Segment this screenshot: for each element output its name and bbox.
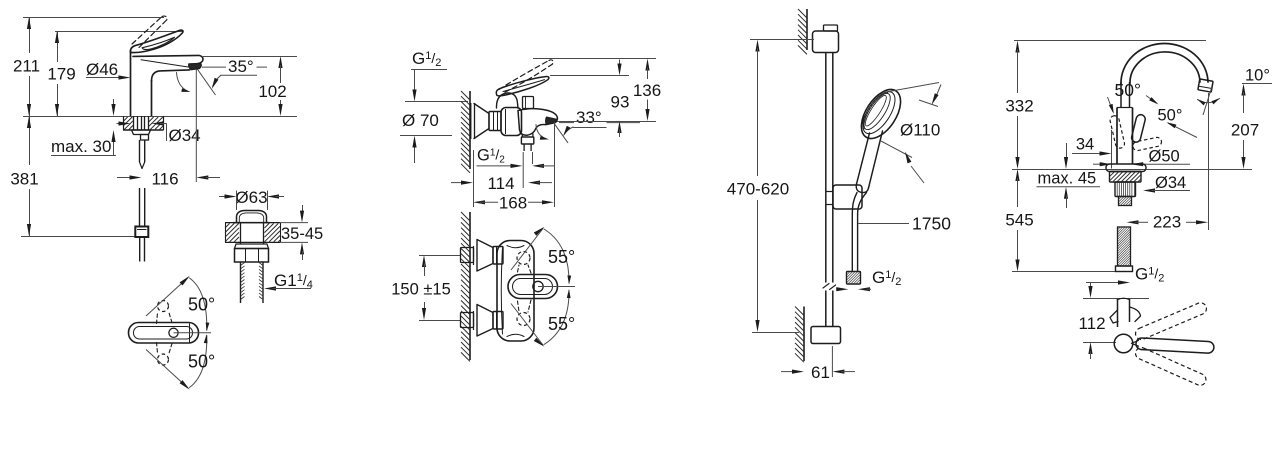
dimension 61 (781, 371, 795, 373)
dashed lever position down (circle) (158, 354, 169, 365)
svg-text:223: 223 (1153, 213, 1181, 232)
svg-text:150 ±15: 150 ±15 (391, 281, 451, 299)
dimension 545 (1015, 169, 1019, 181)
dimension 93 (619, 60, 621, 68)
extension lines 35-45 (280, 222, 308, 224)
spout aerator (dark) (189, 63, 202, 70)
svg-text:114: 114 (487, 174, 514, 193)
10 degree arc arrows (1198, 99, 1220, 103)
shower head clip detail (863, 116, 865, 127)
svg-text:Ø46: Ø46 (86, 60, 118, 79)
svg-text:61: 61 (811, 363, 830, 382)
label G1/2 hose thread (1086, 282, 1122, 284)
shower rail upper section (825, 53, 827, 283)
deck line (1012, 169, 1252, 171)
mixer body front view (497, 241, 534, 342)
35 deg arc arrow left (177, 73, 189, 92)
union nut side view (489, 112, 501, 131)
diverter knob (523, 97, 534, 109)
mounting flange hatched (1110, 172, 1142, 183)
extension line rail edge for 61 (831, 346, 833, 377)
svg-text:168: 168 (499, 194, 527, 213)
extension line top of lever (179 ref) (55, 31, 183, 33)
dashed lever edges down (157, 343, 158, 355)
extension lines for Ø63 (236, 191, 238, 211)
waste locknut (235, 249, 269, 263)
max 45 arrows (1066, 143, 1068, 160)
33 deg angle diagonal (554, 124, 568, 143)
handle butt end (856, 184, 868, 193)
dimension 136 (645, 59, 649, 71)
hand shower head (853, 83, 908, 145)
wall line top with hatching (806, 9, 808, 50)
extension line lever top (93 ref) (550, 75, 629, 77)
high arc spout outer curve (1121, 43, 1208, 84)
55 deg arc upper (544, 229, 569, 283)
spout inner contour (141, 60, 188, 67)
50 deg leader line lower (146, 350, 188, 389)
50 deg leader line upper (146, 278, 188, 317)
faucet top view body (swing view) (1117, 299, 1119, 327)
dimension 114 (451, 182, 464, 184)
dimension Ø50 arrows (1093, 163, 1103, 165)
svg-text:50°: 50° (1115, 80, 1141, 100)
svg-text:34: 34 (1076, 136, 1094, 154)
svg-text:Ø 70: Ø 70 (402, 111, 439, 130)
faucet body column (130, 50, 132, 116)
lever top view inner contour (134, 327, 193, 340)
hose connector stub (141, 135, 149, 141)
mixer body side view (501, 108, 522, 136)
extension line bottom of supply hose (381 ref) (21, 236, 146, 238)
svg-text:Ø63: Ø63 (235, 188, 267, 207)
35 deg arc arrow from underline (213, 75, 221, 86)
escutcheon cone side view (470, 103, 472, 139)
lever dashed forward position (1132, 137, 1162, 152)
label Ø34 shank (1143, 188, 1155, 192)
hose conical nut G1/2 (847, 272, 861, 285)
dashed lever edges up (157, 312, 158, 324)
55 deg leader upper (511, 229, 543, 271)
extension line top of raised lever (211 ref) (23, 17, 164, 19)
33 deg arc arrow left (536, 125, 546, 139)
svg-text:112: 112 (1078, 314, 1105, 333)
deck / counter line (23, 116, 297, 118)
spout underside with fillet to column (152, 70, 190, 81)
pivot horizontal reference line (174, 332, 212, 334)
svg-text:93: 93 (611, 93, 630, 112)
svg-text:211: 211 (13, 57, 40, 76)
flexible supply hose lower segment (139, 188, 141, 226)
lever end cap line (189, 324, 191, 343)
waste body through deck (240, 223, 242, 244)
dimension 211 vertical line (29, 17, 31, 53)
pivot circle swing view (1114, 334, 1133, 353)
spout outlet (1198, 79, 1213, 92)
shower hose (852, 193, 857, 215)
55 deg leader lower (511, 304, 543, 346)
dimension 168 (473, 200, 485, 204)
dimension 150 +-15 (419, 255, 461, 257)
wall line side view with hatching (469, 91, 471, 169)
svg-text:55°: 55° (548, 314, 575, 334)
svg-text:50°: 50° (1158, 107, 1183, 125)
svg-text:381: 381 (10, 170, 38, 189)
mixer lever front view (508, 275, 558, 299)
33 deg underline (573, 127, 607, 129)
lever solid (upright) (1131, 114, 1147, 143)
svg-text:Ø50: Ø50 (1149, 148, 1180, 166)
leader arrow down to swing view (1090, 283, 1092, 290)
dimension Ø63 arrows (219, 196, 228, 198)
svg-text:332: 332 (1005, 97, 1033, 116)
lever dashed back position (1109, 115, 1125, 149)
hose end fitting (1116, 266, 1133, 272)
upper wall union front view (461, 248, 474, 263)
svg-text:55°: 55° (548, 247, 575, 267)
bath spout side view (teardrop) (518, 109, 557, 136)
extension lines below outlet (522, 152, 524, 188)
svg-text:179: 179 (47, 65, 75, 84)
deck section hatching (123, 117, 128, 122)
hand shower handle (857, 133, 870, 184)
extension line spout tip vertical (554, 122, 556, 207)
lever pivot circle (169, 328, 178, 337)
dashed lever position up (circle) (158, 301, 169, 312)
dashed lever down position (1134, 346, 1208, 388)
svg-text:50°: 50° (188, 295, 215, 315)
deck bottom edge (123, 129, 164, 131)
lever raised position (dashed) (132, 17, 162, 45)
high arc spout inner curve (1130, 52, 1200, 84)
lever cap dome (496, 93, 518, 108)
extension line spout tip (bottom ref) (557, 121, 656, 123)
dimension 179 vertical line (57, 31, 59, 62)
35 deg underline (221, 74, 257, 76)
mounting shank through deck (133, 116, 135, 130)
dimension 470-620 vertical (750, 39, 814, 41)
flexible supply hose upper segment (139, 140, 141, 162)
extension line lever axis (1083, 342, 1116, 344)
basin deck section with hatching (225, 222, 280, 224)
dashed lever edges front view (518, 265, 520, 272)
svg-text:545: 545 (1005, 211, 1033, 230)
lever pivot front view (533, 281, 543, 291)
dashed lever down circle (517, 313, 530, 326)
dimension 332 (1015, 41, 1019, 53)
bottom rail bracket (811, 327, 841, 344)
svg-text:max. 30: max. 30 (51, 137, 111, 156)
faucet column (1116, 108, 1118, 165)
svg-text:136: 136 (633, 81, 661, 100)
label 1750 hose length leader (858, 223, 909, 225)
extension line top (136 ref) (533, 58, 656, 60)
55 deg arc lower (544, 291, 569, 345)
faucet lever (solid) (130, 30, 183, 53)
50 deg arc lower (190, 336, 207, 388)
waste threaded tube (240, 262, 242, 303)
threaded shank (1119, 197, 1132, 206)
washer under deck (132, 130, 151, 135)
solid lever pointing right (1136, 338, 1215, 354)
faucet spout outline (133, 55, 203, 63)
svg-text:33°: 33° (576, 108, 602, 127)
lower wall union front view (461, 313, 474, 328)
dimension 381 vertical line (29, 116, 31, 165)
shower rail lower section (825, 291, 827, 327)
label G1 1/4 with leader arrow (264, 286, 276, 290)
svg-text:35°: 35° (228, 57, 254, 76)
dimension 207 (1241, 84, 1245, 96)
svg-text:470-620: 470-620 (727, 180, 789, 199)
shower holder on rail (833, 185, 862, 209)
extension line for 34 (1111, 130, 1113, 169)
dashed lever up circle (517, 252, 530, 265)
shower hose outlet below spout (521, 134, 523, 138)
waste cap dome (234, 222, 270, 224)
33 deg arc arrow from underline (564, 127, 573, 134)
svg-text:10°: 10° (1245, 67, 1270, 85)
base escutcheon (1106, 164, 1146, 172)
extension line wall vertical (473, 150, 475, 207)
lever top view solid outline (129, 323, 199, 344)
mixer lever solid (496, 77, 549, 96)
shower head spray dots (863, 92, 889, 130)
spout aerator (dark) (546, 117, 557, 124)
extension line top of spout arc (1014, 40, 1206, 42)
extension line outlet vertical (1208, 93, 1210, 230)
svg-text:1750: 1750 (912, 214, 951, 234)
wall line front view with hatching (469, 212, 471, 360)
extension line spout tip vertical (195, 64, 197, 182)
dimension 223 (1127, 220, 1139, 224)
35 deg angle diagonal (197, 68, 216, 95)
top rail bracket (813, 31, 839, 53)
dimension 116 arrows (117, 177, 133, 179)
rail break marks (823, 284, 829, 289)
dashed lever up position (1134, 301, 1208, 341)
extension line swing view top (1083, 298, 1149, 300)
svg-text:max. 45: max. 45 (1038, 170, 1097, 188)
G3/8 connector nut (135, 227, 148, 238)
lever inner loop line (142, 37, 175, 49)
outlet axis line (10 deg) (1203, 88, 1212, 115)
dimension Ø34 arrows at mounting shank (117, 123, 122, 125)
50 deg arc upper (190, 278, 207, 330)
dimension 35-45 vertical arrows (302, 205, 304, 214)
Ø70 lower arrow (414, 144, 416, 163)
wall line bottom with hatching (803, 307, 805, 362)
dimension 102 vertical (278, 56, 282, 68)
extension lines Ø70 (405, 101, 468, 103)
braided supply hose (1118, 227, 1131, 266)
hose tail below nut (139, 237, 141, 262)
svg-text:Ø34: Ø34 (1155, 174, 1186, 192)
dimension Ø110 oblique (889, 83, 939, 92)
svg-text:207: 207 (1231, 121, 1259, 140)
extension line hose end (1012, 271, 1125, 273)
extension line spout top (102 ref) (203, 56, 297, 58)
pivot horizontal line front (538, 286, 575, 288)
svg-text:116: 116 (151, 170, 178, 189)
knurled locknut (1115, 182, 1136, 197)
svg-text:102: 102 (258, 82, 286, 101)
svg-text:50°: 50° (188, 352, 215, 372)
mixer lever raised dashed (499, 60, 549, 89)
svg-text:Ø110: Ø110 (900, 121, 940, 140)
svg-text:35-45: 35-45 (281, 225, 323, 243)
spout tubes above body (1120, 82, 1122, 108)
